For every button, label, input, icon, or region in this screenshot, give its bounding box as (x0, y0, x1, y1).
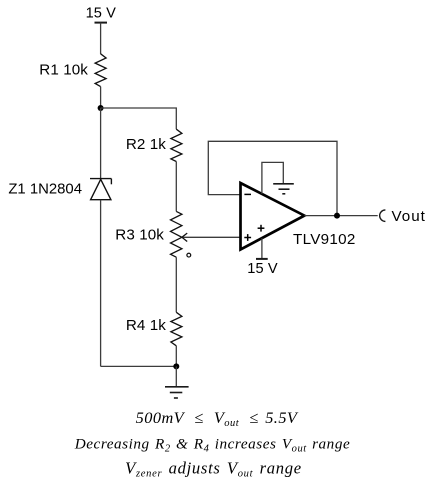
potentiometer R3 (115, 211, 182, 257)
ground symbol at op-amp V- (273, 184, 294, 194)
wire supply to R1 (100, 23, 102, 54)
op-amp V- pin wire to ground (262, 162, 283, 194)
resistor R2 (126, 129, 182, 161)
svg-text:R4 1k: R4 1k (126, 317, 166, 334)
svg-text:Vout: Vout (392, 208, 426, 225)
power supply +15V top (86, 5, 117, 22)
R3 wiper arrow (182, 233, 241, 241)
wire node A to R2 branch (101, 108, 177, 129)
wire Z1 to bottom rail (100, 200, 102, 367)
resistor R1 (39, 54, 106, 87)
wire bottom rail to ground node (101, 365, 177, 367)
svg-text:R3 10k: R3 10k (115, 227, 164, 244)
svg-text:R1 10k: R1 10k (39, 62, 88, 79)
wire node A down to Z1 (100, 108, 102, 179)
feedback wire (output to inverting input) (208, 141, 337, 215)
zener diode Z1 (8, 179, 111, 200)
wire node B to ground (175, 366, 177, 386)
svg-text:500mV ≤ Vout ≤ 5.5V: 500mV ≤ Vout ≤ 5.5V (136, 408, 299, 429)
node B junction dot (bottom) (173, 363, 179, 369)
R3 wiper circle marker (187, 253, 191, 257)
op-amp U1 TLV9102 (241, 183, 356, 250)
op-amp non-inverting input label + (244, 234, 251, 241)
op-amp inverting input label - (244, 193, 251, 195)
op-amp V+ supply pin label + (258, 225, 265, 232)
ground symbol bottom (165, 387, 189, 398)
wire R4 to ground node (175, 346, 177, 367)
wire R1 to node A (100, 87, 102, 108)
svg-text:Z1 1N2804: Z1 1N2804 (8, 182, 82, 198)
svg-text:15 V: 15 V (247, 261, 278, 277)
svg-text:Decreasing R2 & R4 increases V: Decreasing R2 & R4 increases Vout range (74, 436, 351, 455)
node OUT junction dot (334, 213, 340, 219)
output wire (304, 215, 377, 217)
node A junction dot (98, 105, 104, 111)
Vout port connector (380, 210, 386, 222)
power supply +15V at op-amp (247, 259, 278, 277)
svg-text:R2 1k: R2 1k (126, 136, 166, 153)
op-amp V+ pin wire to +15V (261, 238, 263, 259)
resistor R4 (126, 312, 182, 346)
wire R2 to R3 (175, 162, 177, 212)
svg-text:Vzener adjusts Vout range: Vzener adjusts Vout range (125, 458, 302, 479)
svg-text:TLV9102: TLV9102 (293, 231, 356, 248)
svg-text:15 V: 15 V (86, 5, 117, 21)
wire R3 to R4 (175, 257, 177, 312)
